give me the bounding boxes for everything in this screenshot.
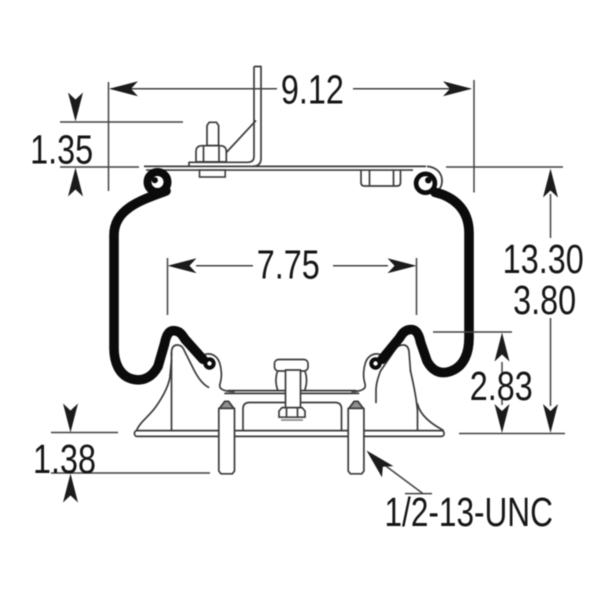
piston right bead lip <box>352 354 380 392</box>
nut on bracket <box>196 146 226 162</box>
piston recess panel <box>243 403 342 431</box>
arrowhead 13.30 top <box>543 169 558 198</box>
arrowhead 1.35 top <box>68 93 83 122</box>
dimension 7.75 line <box>196 265 253 267</box>
dimension 2.83 line <box>501 362 503 373</box>
svg-text:1/2-13-UNC: 1/2-13-UNC <box>385 489 553 535</box>
bead curl right <box>416 174 435 193</box>
bolt stud on bracket <box>196 122 226 162</box>
central fitting <box>275 360 309 421</box>
beadplate top line <box>144 165 426 167</box>
beadplate bottom line <box>146 169 413 171</box>
piston left ear rib edge <box>171 353 173 431</box>
piston left ear peak <box>172 345 209 387</box>
clamp tab <box>361 170 401 186</box>
stud right <box>348 401 364 474</box>
fitting spool right side <box>305 371 307 390</box>
svg-text:7.75: 7.75 <box>257 242 320 287</box>
fitting nut <box>279 408 305 418</box>
svg-text:1.35: 1.35 <box>30 127 93 172</box>
bellows lobe circle left <box>205 359 213 367</box>
dimension 1.35 ext lines <box>60 121 183 123</box>
dimension 9.12 line <box>111 88 277 90</box>
leader line 1/2-13-UNC <box>387 467 433 494</box>
dimension 13.30 ext lines <box>446 166 563 168</box>
arrowhead 2.83 bottom <box>495 404 510 433</box>
piston left bead lip <box>206 354 235 392</box>
washer under plate <box>200 170 226 177</box>
fitting bolt body <box>286 370 301 408</box>
bellows left wall <box>114 191 203 380</box>
bracket diagonal brace <box>218 121 257 163</box>
piston right skirt flare <box>418 404 444 430</box>
svg-text:1.38: 1.38 <box>33 436 96 481</box>
arrowhead 1.38 top <box>63 404 78 433</box>
dimension 7.75 ext lines <box>167 258 169 315</box>
stud left <box>219 401 235 474</box>
dimension 13.30 line <box>550 194 552 238</box>
bellows right wall <box>382 192 469 372</box>
arrowhead 7.75 right <box>388 258 417 273</box>
dimension 9.12 ext lines <box>108 82 110 191</box>
arrowhead 7.75 left <box>168 258 197 273</box>
piston ledge upper line <box>228 390 356 392</box>
beadplate right end wrap <box>427 166 442 191</box>
arrowhead 9.12 right <box>443 81 472 96</box>
top bracket vertical plate <box>189 67 261 167</box>
arrowhead 2.83 top <box>495 333 510 362</box>
dimension 1.38 ext lines <box>51 432 118 434</box>
arrowhead 1.35 bottom <box>68 168 83 197</box>
arrowhead 1.38 bottom <box>63 474 78 503</box>
bottom plate <box>135 431 445 437</box>
bellows lobe circle right <box>371 359 379 367</box>
svg-text:3.80: 3.80 <box>513 278 576 323</box>
piston right ear rib edge <box>411 371 418 431</box>
dimension 2.83 ext line <box>433 331 512 333</box>
svg-text:9.12: 9.12 <box>281 67 344 112</box>
fitting spool left side <box>276 371 278 390</box>
arrowhead 13.30 bottom <box>543 404 558 433</box>
arrowhead leader UNC <box>367 451 394 478</box>
bead curl left <box>148 172 168 192</box>
arrowhead 9.12 left <box>109 81 138 96</box>
fitting collar cap <box>275 360 309 372</box>
svg-text:13.30: 13.30 <box>503 236 584 281</box>
piston left skirt flare <box>137 360 172 430</box>
piston right ear inner slope <box>376 345 411 403</box>
piston ledge lower line <box>225 392 359 394</box>
svg-text:2.83: 2.83 <box>470 364 533 409</box>
